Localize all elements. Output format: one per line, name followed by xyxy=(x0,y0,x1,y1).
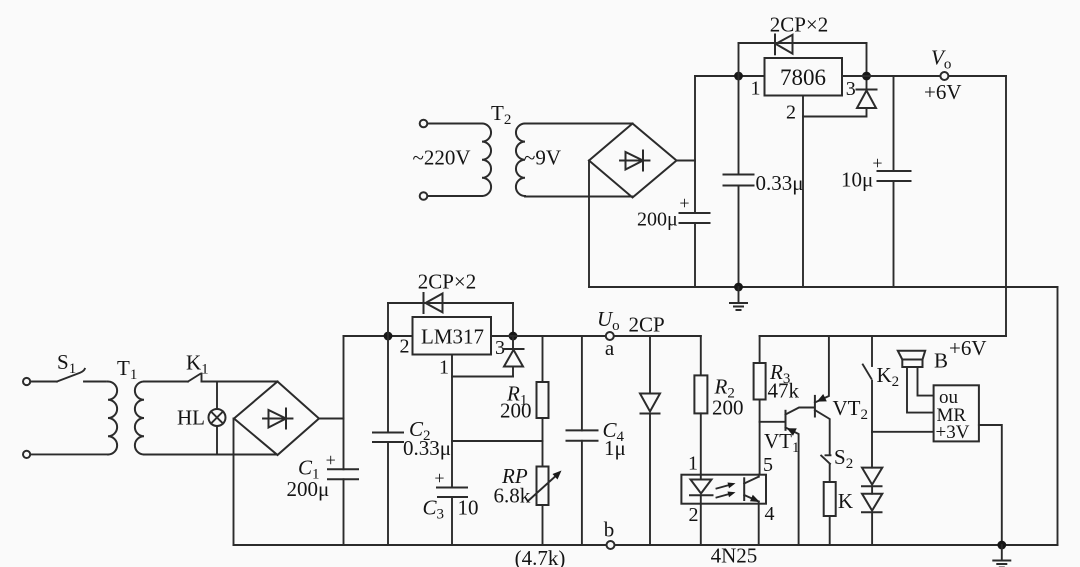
svg-text:1: 1 xyxy=(439,357,449,379)
svg-text:1: 1 xyxy=(751,78,761,100)
svg-text:3: 3 xyxy=(846,78,856,100)
speaker B xyxy=(898,351,925,360)
wire: T2 primary bottom lead xyxy=(428,195,483,197)
wire: bridge minus down to bottom rail xyxy=(233,419,235,546)
wire: T1 secondary top to K1 xyxy=(144,381,188,383)
diode 2CP branch xyxy=(649,336,651,394)
wire: C1 node to LM317 input xyxy=(344,335,413,337)
svg-text:+: + xyxy=(434,468,444,488)
wire: T2 primary top lead xyxy=(428,123,483,125)
relay contact K1 xyxy=(188,374,200,382)
capacitor C1 plates xyxy=(328,468,358,470)
capacitor C2 branch xyxy=(387,336,389,433)
svg-text:47k: 47k xyxy=(768,379,800,403)
svg-text:1: 1 xyxy=(688,453,698,475)
svg-text:Uo: Uo xyxy=(597,307,620,334)
ground symbol (top rail) xyxy=(738,287,740,303)
svg-text:0.33μ: 0.33μ xyxy=(403,436,451,460)
wire: pin2 tee to protection diode xyxy=(803,108,867,117)
transistor VT2 xyxy=(814,396,816,417)
opto LED xyxy=(700,475,702,480)
node dot: 7806 pin1 junction xyxy=(734,72,743,81)
svg-text:Vo: Vo xyxy=(931,46,951,73)
svg-text:VT2: VT2 xyxy=(833,396,869,423)
svg-text:HL: HL xyxy=(177,406,205,430)
switch S1 xyxy=(57,369,85,382)
ground symbol (bottom right) xyxy=(1001,545,1003,560)
potentiometer RP xyxy=(537,467,549,506)
wire: LM317 bypass right vertical xyxy=(512,303,514,336)
svg-text:4: 4 xyxy=(765,503,775,525)
svg-text:5: 5 xyxy=(763,454,773,476)
node dot: LM317 input junction xyxy=(384,332,393,341)
node dot: 7806 output junction xyxy=(862,72,871,81)
svg-text:b: b xyxy=(604,518,615,542)
transformer T2 primary winding xyxy=(482,124,491,197)
bridge rectifier (top) diamond xyxy=(589,124,677,198)
node dot: ground rail junction xyxy=(734,283,743,292)
relay contact K2 xyxy=(871,336,873,366)
diode 2CPx2 (across 7806) xyxy=(776,35,793,54)
diode VD at 7806 pin3 xyxy=(857,91,876,109)
wire: 7806 input line xyxy=(695,75,765,77)
wire: top ground rail xyxy=(589,286,1058,288)
wire: +6V rail (bottom circuit) xyxy=(760,335,1006,337)
diode VD4 xyxy=(862,468,882,485)
regulator LM317 box xyxy=(413,317,492,355)
svg-text:2: 2 xyxy=(689,504,699,526)
capacitor C3 plates xyxy=(437,487,467,489)
capacitor C4 branch xyxy=(581,336,583,430)
svg-text:K1: K1 xyxy=(186,351,209,378)
wire: bridge plus to C1 node xyxy=(319,418,344,420)
svg-text:K: K xyxy=(838,489,853,513)
capacitor 200u (top) plates xyxy=(680,212,710,214)
transformer T1 primary winding xyxy=(108,382,117,455)
svg-text:C3: C3 xyxy=(423,496,445,523)
diode VD at LM317 pin3 xyxy=(512,336,514,349)
wire: right edge vertical joining rails xyxy=(1057,287,1059,545)
switch S2 xyxy=(826,454,831,456)
svg-text:LM317: LM317 xyxy=(421,325,484,349)
svg-text:S1: S1 xyxy=(57,350,76,377)
opto phototransistor xyxy=(743,478,745,500)
wire: T1 primary bottom lead xyxy=(31,453,109,455)
wire: C1 node vertical xyxy=(343,336,345,469)
wire: speaker left lead to MR pin xyxy=(907,367,934,413)
resistor R3 xyxy=(759,336,761,363)
terminal Vo xyxy=(940,72,948,80)
svg-text:10μ: 10μ xyxy=(841,168,873,192)
svg-text:7806: 7806 xyxy=(780,65,826,90)
terminal b xyxy=(607,541,615,549)
wire: 7806 pin2 vertical to ground rail xyxy=(802,96,804,288)
svg-text:+: + xyxy=(872,153,882,173)
svg-text:+3V: +3V xyxy=(936,422,970,443)
wire: bottom rail xyxy=(234,544,1058,546)
node: mains terminal bottom xyxy=(23,451,30,458)
wire: 7806 output line xyxy=(842,75,867,77)
svg-text:2CP: 2CP xyxy=(629,313,665,337)
wire: bypass left vertical xyxy=(738,43,740,76)
lamp HL branch wire xyxy=(216,382,218,410)
optocoupler 4N25 box xyxy=(681,475,766,504)
wire: LM317 output line xyxy=(491,335,701,337)
wire: +3V feed tee to music IC xyxy=(872,431,934,433)
node: T2 primary top terminal xyxy=(420,120,428,128)
svg-text:+: + xyxy=(326,450,336,470)
wire: LM317 pin1 (ADJ) xyxy=(452,355,513,377)
svg-text:K2: K2 xyxy=(877,363,900,390)
svg-text:S2: S2 xyxy=(834,445,853,472)
diode VD5 xyxy=(862,494,882,511)
bridge rectifier (bottom) diamond xyxy=(234,382,319,456)
relay coil K xyxy=(824,482,836,516)
music IC box (ou MR +3V) xyxy=(934,385,979,441)
wire: S1 to T1 xyxy=(84,381,106,383)
regulator U 7806 box xyxy=(765,58,843,96)
svg-text:(4.7k): (4.7k) xyxy=(515,546,566,567)
svg-text:1μ: 1μ xyxy=(604,436,626,460)
svg-text:~220V: ~220V xyxy=(412,146,470,170)
wire: LM317 bypass top xyxy=(388,302,513,304)
wire: T1 secondary bottom xyxy=(144,454,278,456)
wire: bridge + output to node xyxy=(677,160,696,162)
transformer T2 secondary winding xyxy=(516,124,525,197)
wire: bypass right vertical xyxy=(866,43,868,76)
node dot: LM317 output junction xyxy=(509,332,518,341)
wire: bridge AC2 down to ground rail xyxy=(588,161,590,288)
bridge rectifier (bottom) inner diode xyxy=(263,418,293,420)
wire: bypass top xyxy=(739,42,867,44)
wire: T2 secondary bottom to bridge xyxy=(525,196,633,198)
svg-text:+6V: +6V xyxy=(949,336,987,360)
wire: speaker right lead to ou pin xyxy=(918,367,934,396)
svg-text:4N25: 4N25 xyxy=(711,544,758,567)
svg-text:a: a xyxy=(605,336,615,360)
svg-text:T2: T2 xyxy=(491,101,511,128)
resistor R1 xyxy=(542,336,544,382)
transformer T1 secondary winding xyxy=(135,382,144,455)
svg-text:T1: T1 xyxy=(117,356,137,383)
svg-text:200μ: 200μ xyxy=(637,209,678,231)
svg-text:2: 2 xyxy=(400,336,410,358)
capacitor 10u branch xyxy=(893,76,895,171)
svg-text:6.8k: 6.8k xyxy=(494,484,531,508)
capacitor 0.33u branch xyxy=(738,76,740,175)
svg-text:200: 200 xyxy=(712,396,744,420)
wire: ADJ tee to R1/RP junction xyxy=(452,440,543,442)
node: T2 primary bottom terminal xyxy=(420,192,428,200)
svg-text:B: B xyxy=(934,349,948,373)
wire: T2 secondary top to bridge xyxy=(525,123,633,125)
resistor R2 xyxy=(700,336,702,375)
wire: K1 to bridge top vertex xyxy=(202,381,278,383)
svg-text:10: 10 xyxy=(458,496,479,520)
opto light arrows xyxy=(717,485,732,489)
svg-text:200μ: 200μ xyxy=(287,477,330,501)
node dot: bottom ground junction xyxy=(997,541,1006,550)
svg-text:200: 200 xyxy=(500,399,532,423)
svg-text:+: + xyxy=(679,193,689,213)
terminal a (Uo) xyxy=(606,332,614,340)
diode 2CPx2 (across LM317) xyxy=(426,294,443,313)
transistor VT1 xyxy=(785,411,787,430)
wire: Vo down right side xyxy=(1005,76,1007,336)
svg-text:2: 2 xyxy=(786,102,796,124)
wire: LM317 bypass left vertical xyxy=(387,303,389,336)
svg-text:2CP×2: 2CP×2 xyxy=(770,13,829,37)
svg-text:~9V: ~9V xyxy=(524,146,561,170)
node: mains terminal top xyxy=(23,378,30,385)
svg-text:0.33μ: 0.33μ xyxy=(756,171,804,195)
lamp HL xyxy=(209,409,226,426)
svg-text:2CP×2: 2CP×2 xyxy=(418,270,477,294)
wire: node vertical x695 (up to 7806 pin1, down through C5) xyxy=(694,76,696,213)
wire: music IC output to ground xyxy=(979,425,1002,545)
wire: top lead to S1 xyxy=(31,381,58,383)
svg-text:+6V: +6V xyxy=(924,80,962,104)
bridge rectifier (top) inner diode xyxy=(620,160,650,162)
